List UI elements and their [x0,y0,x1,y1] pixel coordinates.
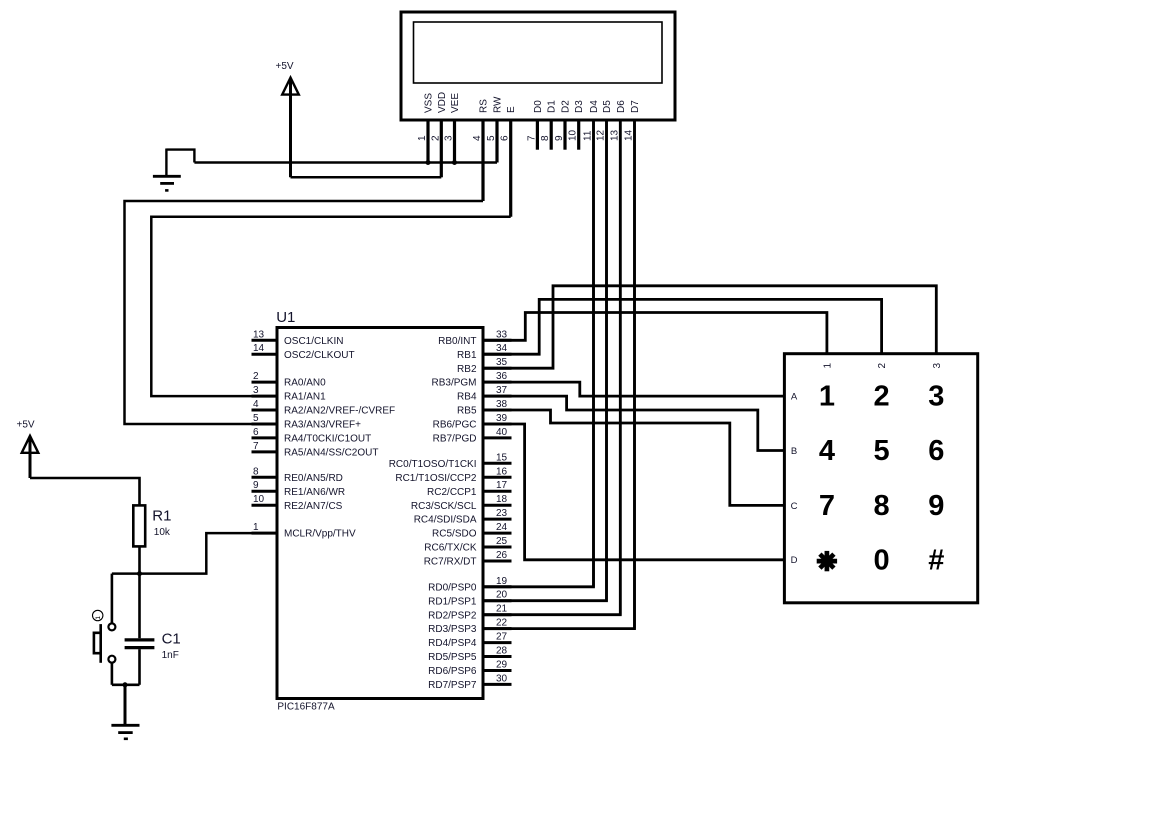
svg-text:3: 3 [932,363,943,369]
svg-text:RA0/AN0: RA0/AN0 [284,378,326,389]
wire RD1 to LCD D5 [483,121,607,601]
LCD pin 12 D5 [605,121,608,601]
svg-text:RC1/T1OSI/CCP2: RC1/T1OSI/CCP2 [395,473,477,484]
svg-text:RA1/AN1: RA1/AN1 [284,392,326,403]
wire ground rail VSS VEE RW [194,161,497,164]
svg-text:RE0/AN5/RD: RE0/AN5/RD [284,473,343,484]
svg-text:D3: D3 [574,100,585,113]
svg-text:8: 8 [874,490,890,522]
svg-text:5: 5 [486,135,497,141]
U1 pin 35 RB2 [483,367,512,370]
svg-text:21: 21 [496,604,508,615]
svg-text:40: 40 [496,427,508,438]
wire node to MCLR [112,533,277,574]
ground (top-left) [165,149,167,177]
svg-text:RB6/PGC: RB6/PGC [433,420,477,431]
svg-text:RC7/RX/DT: RC7/RX/DT [424,557,477,568]
wire RB2 to keypad column 3 [483,286,936,368]
U1 pin 28 RD5/PSP5 [483,655,512,658]
U1 pin 27 RD4/PSP4 [483,641,512,644]
svg-text:34: 34 [496,343,508,354]
wire +5V to R1 [30,478,140,505]
svg-text:26: 26 [496,550,508,561]
svg-text:+5V: +5V [17,420,35,431]
junction bottom node [123,682,128,687]
svg-text:25: 25 [496,536,508,547]
U1 pin 23 RC4/SDI/SDA [483,518,512,521]
svg-text:13: 13 [609,129,620,141]
keypad body [784,354,977,603]
junction VEE [452,160,457,165]
svg-text:3: 3 [253,385,259,396]
LCD pin 14 D7 [633,121,636,629]
svg-text:15: 15 [496,452,508,463]
resistor R1 [133,505,145,546]
wire R1 to node [138,546,141,573]
LCD pin 1 VSS [426,121,429,163]
svg-text:14: 14 [253,343,265,354]
svg-text:4: 4 [472,135,483,141]
svg-text:39: 39 [496,413,508,424]
svg-text:OSC2/CLKOUT: OSC2/CLKOUT [284,350,355,361]
svg-text:4: 4 [819,435,835,467]
svg-text:RB1: RB1 [457,350,477,361]
junction node R1/C1/button [137,571,142,576]
wire RB1 to keypad column 2 [483,299,882,354]
LCD module [401,12,675,120]
LCD pin 2 VDD [440,121,443,177]
svg-text:28: 28 [496,646,508,657]
U1 pin 26 RC7/RX/DT [483,560,512,563]
U1 pin 24 RC5/SDO [483,532,512,535]
LCD pin 8 D1 [550,121,553,150]
svg-text:7: 7 [526,135,537,141]
svg-text:D5: D5 [602,100,613,113]
svg-text:37: 37 [496,385,508,396]
wire ground jog to rail [166,150,194,163]
svg-text:D1: D1 [547,100,558,113]
svg-text:A: A [791,392,798,403]
svg-text:C1: C1 [162,631,181,648]
svg-text:1: 1 [819,381,835,413]
svg-text:9: 9 [253,480,259,491]
svg-text:2: 2 [874,381,890,413]
keypad key * [817,551,837,571]
svg-text:VEE: VEE [450,93,461,113]
svg-text:18: 18 [496,494,508,505]
wire RB0 to keypad column 1 [483,313,827,354]
svg-text:1: 1 [253,522,259,533]
svg-text:4: 4 [253,399,259,410]
svg-text:D7: D7 [630,100,641,113]
U1 pin 21 RD2/PSP2 [483,613,512,616]
svg-text:RA5/AN4/SS/C2OUT: RA5/AN4/SS/C2OUT [284,448,378,459]
U1 pin 9 RE1/AN6/WR [252,490,278,493]
LCD pin 3 VEE [453,121,456,163]
U1 pin 29 RD6/PSP6 [483,669,512,672]
svg-text:0: 0 [874,544,890,576]
svg-text:33: 33 [496,329,508,340]
svg-text:7: 7 [819,490,835,522]
svg-text:3: 3 [928,381,944,413]
wire LCD E to RA1 [151,217,510,396]
svg-text:29: 29 [496,660,508,671]
svg-text:20: 20 [496,590,508,601]
svg-text:6: 6 [500,135,511,141]
svg-text:U1: U1 [276,309,295,326]
svg-text:35: 35 [496,357,508,368]
svg-text:1: 1 [95,616,102,620]
svg-text:6: 6 [253,427,259,438]
U1 pin 30 RD7/PSP7 [483,683,512,686]
svg-text:12: 12 [596,129,607,141]
wire RD2 to LCD D6 [483,121,620,615]
svg-text:2: 2 [877,363,888,369]
wire LCD RS to RA3 [125,201,484,424]
U1 pin 38 RB5 [483,409,512,412]
svg-text:RA2/AN2/VREF-/CVREF: RA2/AN2/VREF-/CVREF [284,406,395,417]
U1 pin 15 RC0/T1OSO/T1CKI [483,462,512,465]
LCD pin 5 RW [495,121,498,163]
svg-text:RB7/PGD: RB7/PGD [433,434,477,445]
svg-text:#: # [928,544,944,576]
wire bottom node [112,683,140,686]
svg-text:RC4/SDI/SDA: RC4/SDI/SDA [414,515,477,526]
svg-text:C: C [791,501,798,512]
U1 pin 6 RA4/T0CKI/C1OUT [252,436,278,439]
LCD pin 11 D4 [592,121,595,587]
svg-text:E: E [506,106,517,113]
svg-text:MCLR/Vpp/THV: MCLR/Vpp/THV [284,529,356,540]
svg-text:9: 9 [554,135,565,141]
U1 pin 19 RD0/PSP0 [483,585,512,588]
wire RB3 to keypad row A [483,382,784,396]
U1 pin 1 MCLR/Vpp/THV [252,532,278,535]
svg-text:14: 14 [624,129,635,141]
svg-text:23: 23 [496,508,508,519]
U1 pin 2 RA0/AN0 [252,381,278,384]
LCD pin 6 E [509,121,512,217]
svg-text:RE1/AN6/WR: RE1/AN6/WR [284,487,345,498]
U1 pin 33 RB0/INT [483,339,512,342]
svg-text:RD1/PSP1: RD1/PSP1 [428,596,477,607]
svg-text:1nF: 1nF [162,650,179,661]
svg-text:RC3/SCK/SCL: RC3/SCK/SCL [411,501,477,512]
svg-text:VSS: VSS [424,93,435,113]
svg-text:RS: RS [479,99,490,113]
U1 pin 16 RC1/T1OSI/CCP2 [483,476,512,479]
svg-text:RB2: RB2 [457,364,477,375]
LCD pin 4 RS [481,121,484,201]
svg-text:B: B [791,446,797,457]
U1 pin 4 RA2/AN2/VREF-/CVREF [252,409,278,412]
wire RD3 to LCD D7 [483,121,635,629]
svg-text:D2: D2 [561,100,572,113]
svg-text:RW: RW [493,96,504,113]
svg-text:27: 27 [496,632,508,643]
svg-text:+5V: +5V [276,61,294,72]
PIC16F877A U1 body [277,328,483,699]
svg-text:6: 6 [928,435,944,467]
wire +5V rail to LCD VDD [291,176,442,179]
svg-text:RB3/PGM: RB3/PGM [431,378,476,389]
svg-text:RA4/T0CKI/C1OUT: RA4/T0CKI/C1OUT [284,434,371,445]
U1 pin 36 RB3/PGM [483,381,512,384]
svg-text:3: 3 [444,135,455,141]
svg-text:OSC1/CLKIN: OSC1/CLKIN [284,336,343,347]
U1 pin 34 RB1 [483,353,512,356]
U1 pin 3 RA1/AN1 [252,395,278,398]
svg-text:RC5/SDO: RC5/SDO [432,529,477,540]
LCD pin 13 D6 [619,121,622,615]
svg-text:RD6/PSP6: RD6/PSP6 [428,666,477,677]
svg-text:RD3/PSP3: RD3/PSP3 [428,624,477,635]
LCD screen area [414,22,663,83]
svg-text:RE2/AN7/CS: RE2/AN7/CS [284,501,343,512]
U1 pin 5 RA3/AN3/VREF+ [252,423,278,426]
U1 pin 40 RB7/PGD [483,436,512,439]
push button [111,574,114,624]
svg-text:D0: D0 [533,100,544,113]
svg-text:1: 1 [822,363,833,369]
svg-text:8: 8 [253,466,259,477]
svg-text:5: 5 [253,413,259,424]
svg-text:16: 16 [496,466,508,477]
U1 pin 8 RE0/AN5/RD [252,476,278,479]
svg-text:10k: 10k [154,527,171,538]
wire RB4 to keypad row B [483,396,784,450]
U1 pin 7 RA5/AN4/SS/C2OUT [252,450,278,453]
svg-text:RB5: RB5 [457,406,477,417]
U1 pin 20 RD1/PSP1 [483,599,512,602]
svg-text:VDD: VDD [437,92,448,113]
LCD pin 9 D2 [563,121,566,150]
U1 pin 37 RB4 [483,395,512,398]
svg-text:19: 19 [496,576,508,587]
U1 pin 17 RC2/CCP1 [483,490,512,493]
svg-text:D: D [791,555,798,566]
wire RB6 to keypad row D [483,424,784,560]
svg-text:RA3/AN3/VREF+: RA3/AN3/VREF+ [284,420,361,431]
U1 pin 10 RE2/AN7/CS [252,504,278,507]
svg-text:RB0/INT: RB0/INT [438,336,476,347]
U1 pin 14 OSC2/CLKOUT [252,353,278,356]
svg-text:5: 5 [874,435,890,467]
svg-text:38: 38 [496,399,508,410]
svg-text:RB4: RB4 [457,392,477,403]
svg-text:RD7/PSP7: RD7/PSP7 [428,680,477,691]
svg-text:36: 36 [496,371,508,382]
wire RB5 to keypad row C [483,410,784,505]
svg-text:8: 8 [540,135,551,141]
svg-text:17: 17 [496,480,508,491]
svg-text:9: 9 [928,490,944,522]
svg-text:RC2/CCP1: RC2/CCP1 [427,487,477,498]
U1 pin 18 RC3/SCK/SCL [483,504,512,507]
svg-text:1: 1 [417,135,428,141]
svg-text:PIC16F877A: PIC16F877A [277,702,335,713]
svg-text:7: 7 [253,441,259,452]
wire RD0 to LCD D4 [483,121,594,587]
U1 pin 22 RD3/PSP3 [483,627,512,630]
svg-text:D6: D6 [616,100,627,113]
U1 pin 39 RB6/PGC [483,423,512,426]
svg-text:2: 2 [430,135,441,141]
svg-text:2: 2 [253,371,259,382]
ground (bottom-left) [124,685,127,726]
svg-text:D4: D4 [589,100,600,113]
U1 pin 13 OSC1/CLKIN [252,339,278,342]
junction VSS [426,160,431,165]
svg-text:10: 10 [568,129,579,141]
capacitor C1 [138,574,141,639]
svg-text:RD0/PSP0: RD0/PSP0 [428,582,477,593]
U1 pin 25 RC6/TX/CK [483,546,512,549]
svg-text:RC6/TX/CK: RC6/TX/CK [424,543,477,554]
svg-text:13: 13 [253,329,265,340]
svg-text:10: 10 [253,494,265,505]
svg-text:30: 30 [496,673,508,684]
LCD pin 10 D3 [577,121,580,150]
svg-text:RC0/T1OSO/T1CKI: RC0/T1OSO/T1CKI [389,459,477,470]
svg-text:24: 24 [496,522,508,533]
svg-text:11: 11 [583,130,594,141]
svg-text:RD2/PSP2: RD2/PSP2 [428,610,477,621]
svg-text:RD4/PSP4: RD4/PSP4 [428,638,477,649]
svg-text:22: 22 [496,618,508,629]
LCD pin 7 D0 [536,121,539,150]
svg-text:R1: R1 [152,507,171,524]
svg-text:RD5/PSP5: RD5/PSP5 [428,652,477,663]
